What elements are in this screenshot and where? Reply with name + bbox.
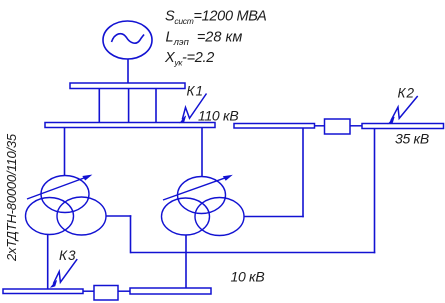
bus 35 kV section 1 xyxy=(234,124,315,129)
wire T2 LV drop xyxy=(185,236,187,289)
wire drop to T1 xyxy=(64,128,66,177)
wire T1 MV vertical xyxy=(130,215,132,253)
bus 10 kV section 2 xyxy=(130,288,211,294)
svg-text:Xук-=2.2: Xук-=2.2 xyxy=(164,50,214,68)
svg-text:35 кВ: 35 кВ xyxy=(395,131,429,147)
section switch box 10 kV xyxy=(94,286,118,301)
generator G xyxy=(103,21,152,59)
wire feeder 2 xyxy=(128,89,130,123)
wire T1 MV horizontal xyxy=(106,215,132,217)
wire connector to section box xyxy=(315,125,325,127)
wire drop to T2 xyxy=(201,128,203,177)
wire generator lead xyxy=(127,59,129,84)
svg-text:2хТДТН-80000/110/35: 2хТДТН-80000/110/35 xyxy=(4,133,19,262)
svg-text:К3: К3 xyxy=(59,248,76,263)
svg-text:110 кВ: 110 кВ xyxy=(198,108,238,124)
wire MV link horizontal xyxy=(131,252,376,254)
wire T2 MV vertical xyxy=(302,128,304,217)
short-circuit point K2 xyxy=(389,86,418,124)
svg-text:К2: К2 xyxy=(398,86,415,101)
wire MV link vertical xyxy=(374,128,376,253)
generator feeder bus xyxy=(70,83,185,89)
short-circuit point K3 xyxy=(51,248,77,287)
wire connector to 10kV box xyxy=(83,290,94,292)
wire feeder 1 xyxy=(98,89,100,123)
wire feeder 3 xyxy=(155,89,157,123)
short-circuit point K1 xyxy=(180,84,206,123)
bus 35 kV section 2 xyxy=(362,124,444,129)
bus 10 kV section 1 xyxy=(3,289,83,294)
wire T1 LV drop xyxy=(47,234,49,290)
transformer T1 xyxy=(26,175,107,235)
wire T2 MV horizontal xyxy=(244,216,304,218)
wire connector from 10kV box xyxy=(118,290,130,292)
wire connector from section box xyxy=(350,125,362,127)
bus 110 kV xyxy=(45,123,215,128)
svg-text:10 кВ: 10 кВ xyxy=(231,269,265,285)
transformer T2 xyxy=(162,175,245,235)
svg-text:Sсист=1200 МВА: Sсист=1200 МВА xyxy=(165,9,266,27)
svg-text:К1: К1 xyxy=(187,84,204,99)
svg-text:Lлэп=28 км: Lлэп=28 км xyxy=(166,30,243,49)
section switch box 35 kV xyxy=(325,119,351,134)
